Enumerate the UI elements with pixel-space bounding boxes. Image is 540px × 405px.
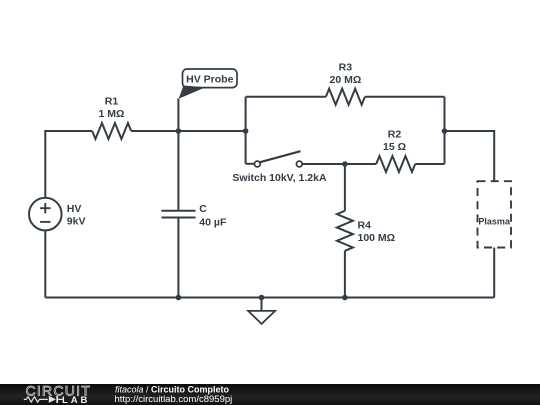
- junction ground symbol: [259, 295, 265, 301]
- wire R4 to ground net: [344, 251, 346, 298]
- logo resistor zigzag: [24, 397, 48, 402]
- svg-text:R3: R3: [339, 62, 353, 74]
- junction node A (R1/C/probe): [176, 128, 182, 134]
- wire ground net bottom: [45, 297, 494, 299]
- label R3 name: [339, 62, 353, 74]
- ground: [248, 298, 275, 324]
- wire plasma bottom to ground net: [493, 248, 495, 298]
- label R2 name: [388, 129, 402, 141]
- junction node D (switch/R2/R4): [342, 161, 348, 167]
- resistor R2: [376, 156, 415, 172]
- svg-text:R2: R2: [388, 129, 402, 141]
- svg-text:LAB: LAB: [62, 395, 90, 405]
- svg-text:HV Probe: HV Probe: [186, 73, 233, 85]
- svg-text:Switch 10kV, 1.2kA: Switch 10kV, 1.2kA: [232, 172, 327, 184]
- footer url: [115, 394, 233, 405]
- wire HV probe tap vertical: [177, 99, 179, 132]
- resistor R4: [337, 211, 353, 251]
- wire switch to R2: [302, 163, 376, 165]
- label C value 40uF: [199, 217, 227, 229]
- svg-text:9kV: 9kV: [67, 216, 86, 228]
- junction capacitor ground: [176, 295, 182, 301]
- wire node D to R4: [344, 164, 346, 211]
- capacitor C 40uF: [161, 211, 195, 218]
- label R4 name: [358, 220, 372, 232]
- svg-text:1 MΩ: 1 MΩ: [99, 108, 125, 120]
- logo LAB text: [62, 395, 90, 405]
- voltage source HV 9kV: [29, 198, 62, 231]
- label switch SW1: [232, 172, 327, 184]
- resistor R3: [326, 89, 365, 105]
- svg-text:20 MΩ: 20 MΩ: [330, 74, 362, 86]
- svg-text:40 µF: 40 µF: [199, 217, 227, 229]
- junction node B: [243, 128, 249, 134]
- svg-text:HV: HV: [67, 203, 82, 215]
- label C name: [199, 203, 207, 215]
- footer bar: [0, 384, 540, 405]
- switch SW1 10kV 1.2kA: [254, 151, 302, 167]
- wire node B to switch: [246, 163, 255, 165]
- svg-text:R1: R1: [105, 96, 119, 108]
- label R1 name: [105, 96, 119, 108]
- svg-text:15 Ω: 15 Ω: [383, 141, 406, 153]
- resistor R1: [92, 123, 131, 139]
- label V1 name HV: [67, 203, 82, 215]
- svg-text:100 MΩ: 100 MΩ: [358, 232, 396, 244]
- svg-text:R4: R4: [358, 220, 372, 232]
- label R4 value 100 MOhm: [358, 232, 396, 244]
- label R3 value 20 MOhm: [330, 74, 362, 86]
- label R1 value 1 MOhm: [99, 108, 125, 120]
- wire capacitor top: [177, 131, 179, 210]
- label R2 value 15 Ohm: [383, 141, 406, 153]
- wire R3 to node C: [365, 96, 445, 98]
- wire capacitor bottom: [177, 219, 179, 298]
- wire node C to plasma top: [445, 131, 495, 181]
- svg-text:Plasma: Plasma: [478, 216, 511, 226]
- label V1 value 9kV: [67, 216, 86, 228]
- wire left vertical top (source V1 to R1 net): [45, 131, 92, 198]
- svg-text:C: C: [199, 203, 207, 215]
- plasma load (dashed box): [478, 181, 512, 247]
- wire R1 to node A: [131, 130, 245, 132]
- footer author/title: [115, 385, 230, 395]
- junction R4 ground: [342, 295, 348, 301]
- svg-text:fitacola / Circuito Completo: fitacola / Circuito Completo: [115, 385, 230, 395]
- node B vertical (R3 to switch): [245, 97, 247, 164]
- logo CIRCUIT outline text: [26, 383, 92, 399]
- label plasma: [478, 216, 511, 226]
- junction node C: [442, 128, 448, 134]
- svg-text:http://circuitlab.com/c8959pj: http://circuitlab.com/c8959pj: [115, 394, 233, 405]
- logo diode symbol: [49, 396, 63, 403]
- node C vertical (R3/R2/plasma): [444, 97, 446, 164]
- wire node B to R3: [246, 96, 326, 98]
- wire left vertical bottom (source V1 to ground net): [44, 230, 46, 297]
- HV Probe callout: [179, 69, 237, 99]
- wire R2 to node C: [415, 163, 444, 165]
